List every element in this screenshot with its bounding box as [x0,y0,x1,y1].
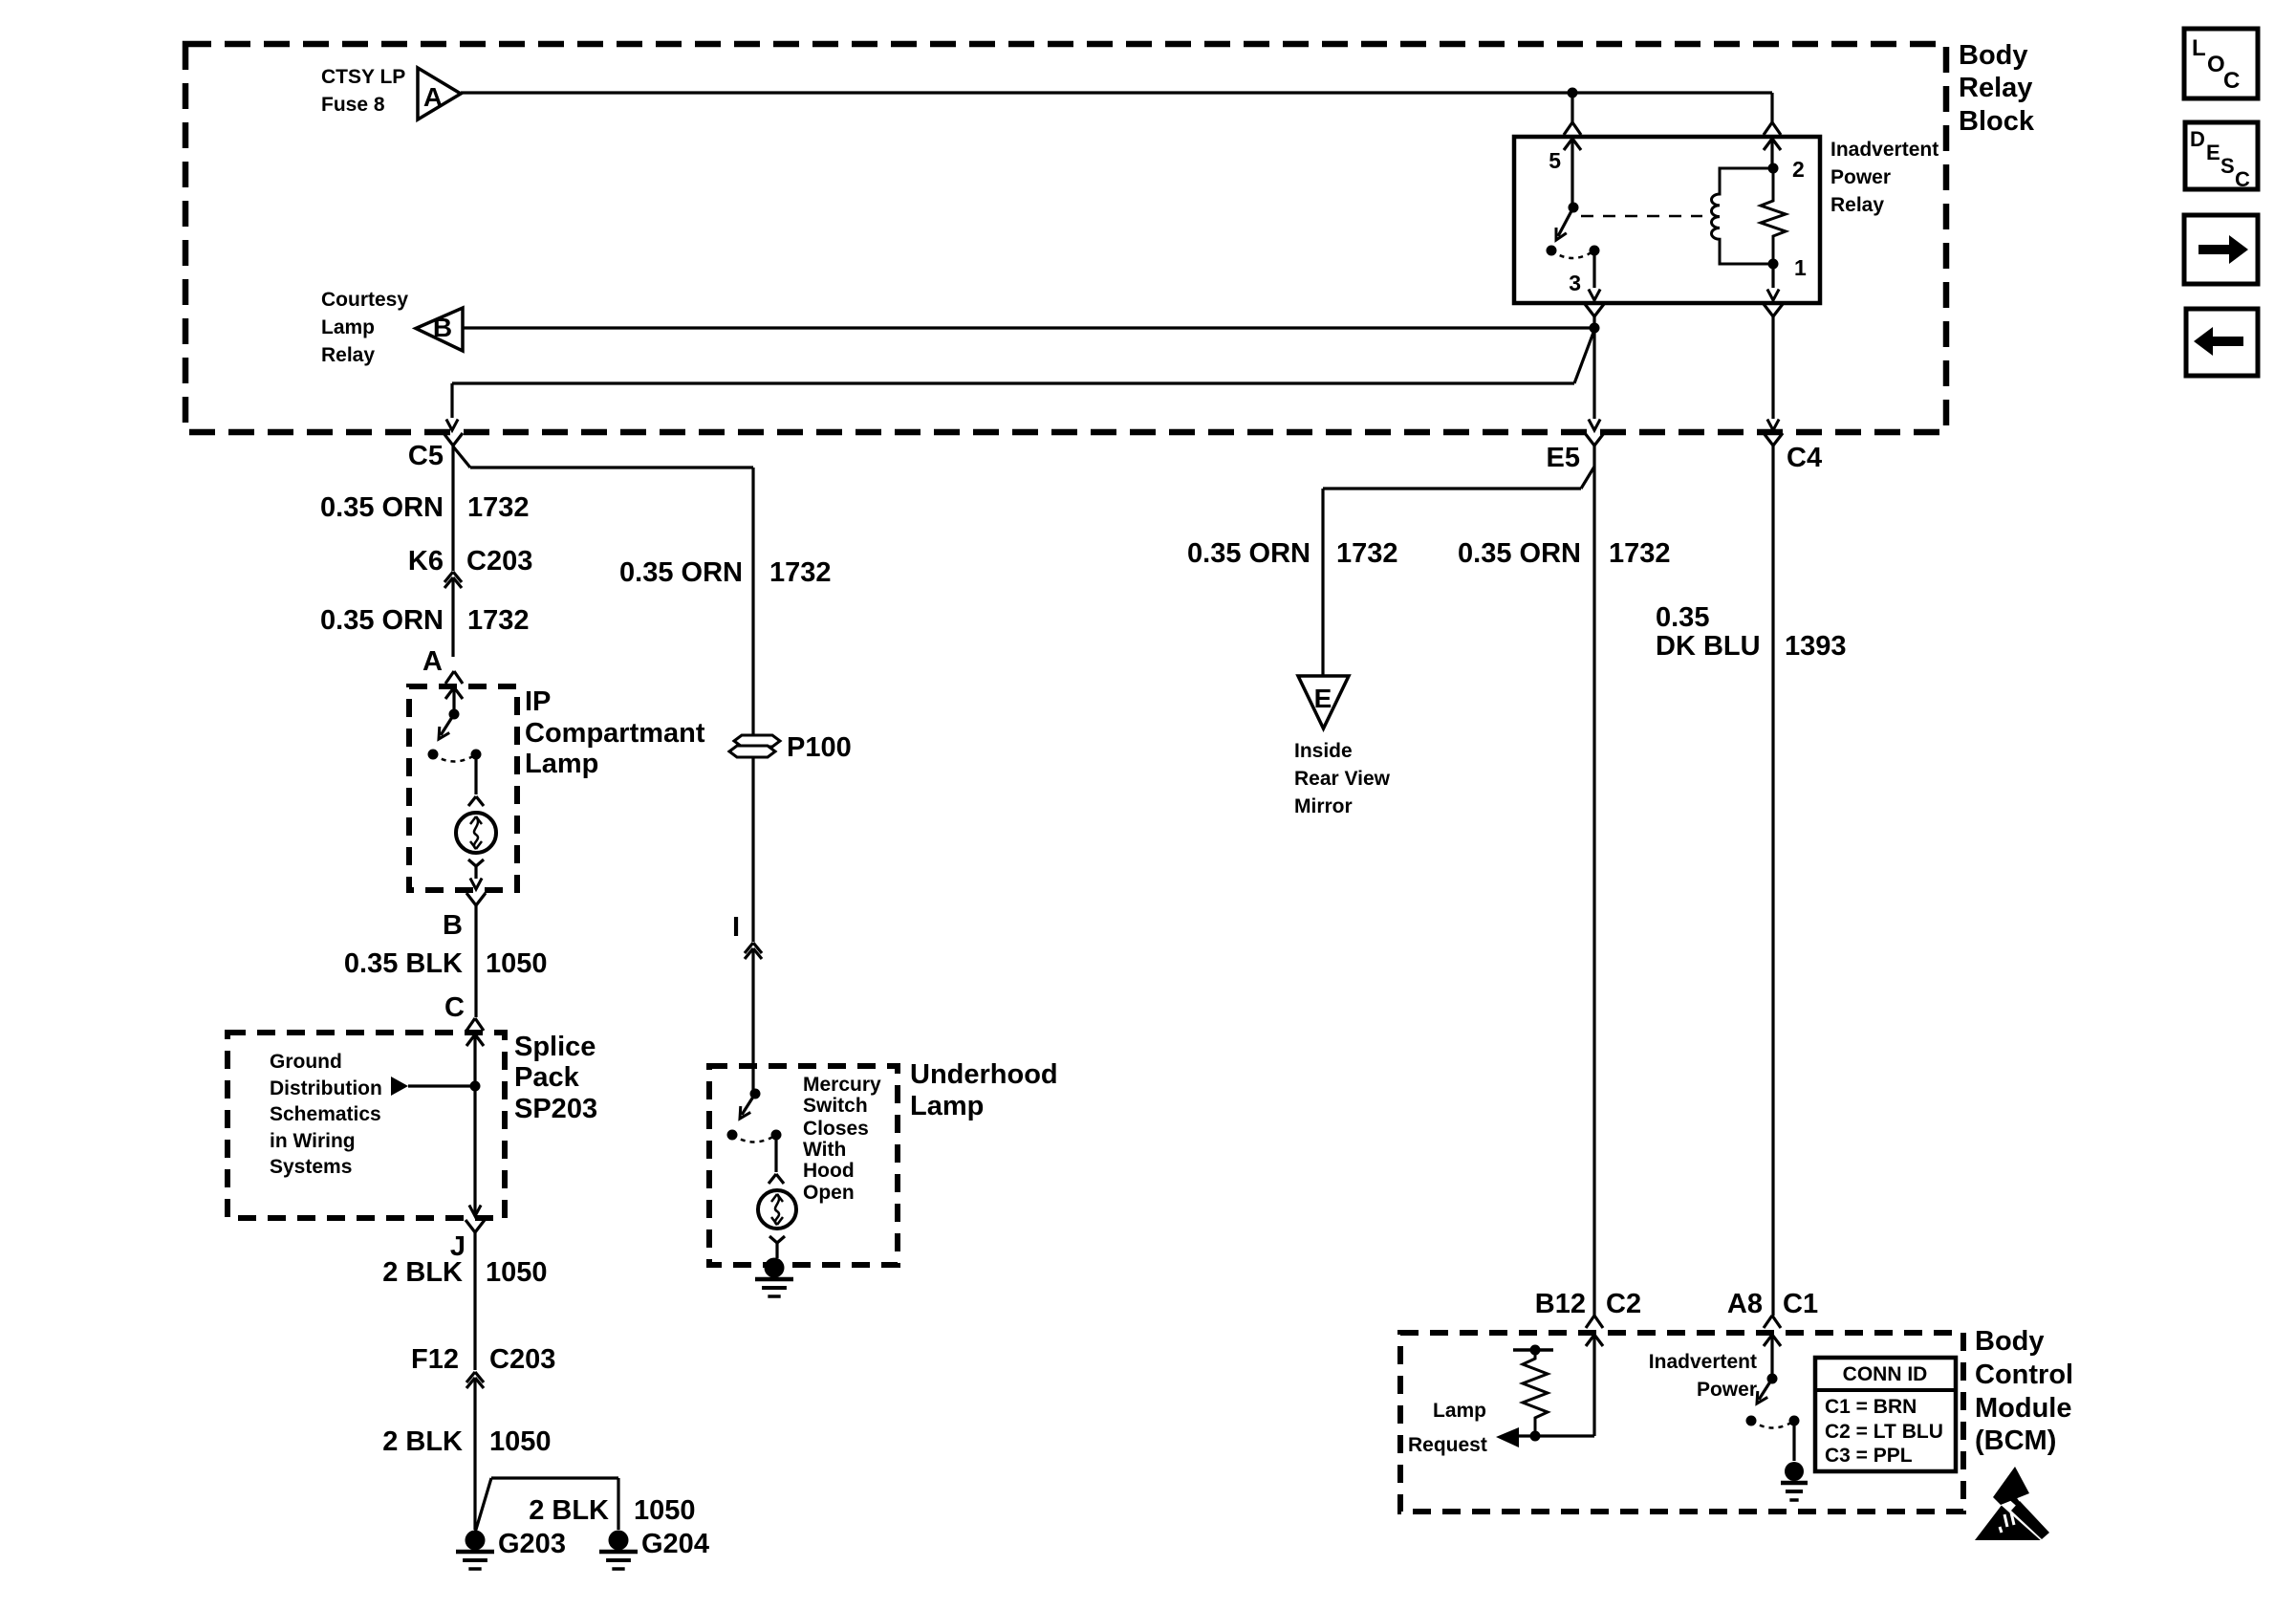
ground at underhood lamp [755,1258,793,1297]
wire: drop to relay pin 5 [1570,93,1573,122]
label: 0.35 ORN 1732 (BCM feed) [1458,538,1670,569]
BCM inadvertent power switch [1746,1374,1800,1426]
svg-text:Relay: Relay [1959,73,2032,103]
svg-text:I: I [732,912,740,943]
svg-text:Inside: Inside [1294,740,1353,762]
wire: C4 exit arrow [1767,420,1779,431]
label: pin 2 [1792,157,1805,182]
grommet P100 [729,735,780,757]
label: 0.35 ORN 1732 (lamp feed) [320,605,529,636]
svg-text:Body: Body [1975,1326,2045,1357]
label: pin 3 [1569,271,1581,295]
label: 0.35 BLK 1050 [344,948,548,979]
relay switch dashed travel arc [1551,250,1594,258]
label: CTSY LP / Fuse 8 [321,66,405,116]
svg-text:Module: Module [1975,1393,2072,1424]
svg-text:0.35 ORN: 0.35 ORN [1458,538,1581,569]
svg-text:Lamp: Lamp [1433,1400,1486,1422]
relay coil [1711,168,1773,264]
connector E5 at block boundary [1585,433,1604,1316]
relay pin 2 dot [1768,163,1779,174]
svg-text:Mercury: Mercury [803,1074,881,1096]
svg-text:Mirror: Mirror [1294,795,1353,817]
label: C3 = PPL [1825,1445,1913,1467]
IP lamp door switch [428,709,482,760]
label: Body Relay Block [1959,40,2035,137]
svg-text:C1 = BRN: C1 = BRN [1825,1396,1917,1418]
svg-text:Lamp: Lamp [321,316,375,338]
svg-text:IP: IP [525,686,551,717]
label: 2 BLK 1050 (ground jumper) [529,1495,695,1526]
body relay block boundary (dashed) [185,44,1946,432]
svg-text:0.35 ORN: 0.35 ORN [619,557,743,588]
wire: relay pin 1 internal exit [1767,264,1779,300]
svg-text:C4: C4 [1787,443,1822,473]
label: C4 [1787,443,1822,473]
svg-text:Inadvertent: Inadvertent [1649,1351,1757,1373]
ESD sensitive device symbol [1975,1467,2054,1546]
IP lamp bulb socket fork (bottom) [468,859,484,879]
wire: pin 3 node vertical [1592,316,1595,419]
svg-text:E: E [1314,684,1332,713]
svg-text:Pack: Pack [514,1062,580,1093]
svg-text:Ground: Ground [270,1051,342,1073]
label: C1 = BRN [1825,1396,1917,1418]
sidebar DESC box [2185,122,2258,191]
svg-text:With: With [803,1139,846,1161]
svg-text:in Wiring: in Wiring [270,1130,356,1152]
svg-text:2 BLK: 2 BLK [382,1426,463,1457]
wire: branch to G204 [475,1478,618,1533]
svg-text:Compartmant: Compartmant [525,718,705,749]
connector marks at relay pin 2 [1764,122,1781,168]
svg-text:E5: E5 [1547,443,1580,473]
wire: P100 to connector I [751,757,754,942]
svg-text:B: B [433,313,452,342]
label: G203 [498,1529,566,1559]
svg-text:Request: Request [1408,1434,1487,1456]
svg-text:C: C [2223,68,2240,94]
underhood bulb socket fork (top) [769,1174,784,1184]
svg-text:L: L [2192,35,2206,61]
CONN ID table [1815,1358,1956,1471]
wire: lamp request line [1519,1434,1594,1437]
label: Inside Rear View Mirror [1294,740,1391,817]
svg-text:1732: 1732 [769,557,832,588]
connector B12/C2 at BCM [1586,1316,1603,1436]
label: B12 C2 [1535,1289,1641,1319]
wire: drop to relay pin 2 [1770,93,1773,122]
svg-text:Hood: Hood [803,1160,855,1182]
svg-text:K6: K6 [408,546,444,577]
svg-text:A8: A8 [1727,1289,1763,1319]
svg-text:DK BLU: DK BLU [1656,631,1761,662]
connector J at splice pack exit [466,1206,485,1371]
svg-text:Relay: Relay [321,344,375,366]
connector K6/C203 in-line [444,572,462,657]
connector A8/C1 at BCM [1764,1316,1781,1379]
wire: E5 exit arrow [1589,420,1600,431]
svg-text:A: A [422,646,443,677]
label: B [443,910,463,941]
svg-text:CTSY LP: CTSY LP [321,66,405,88]
svg-text:0.35 ORN: 0.35 ORN [1187,538,1310,569]
svg-text:1732: 1732 [1609,538,1671,569]
underhood lamp box (dashed) [709,1066,898,1265]
svg-text:1732: 1732 [1336,538,1398,569]
sidebar LOC box [2184,29,2258,98]
svg-text:2 BLK: 2 BLK [529,1495,609,1526]
ground inside BCM [1781,1462,1808,1500]
svg-text:Splice: Splice [514,1032,596,1062]
label: Courtesy Lamp Relay [321,289,408,366]
svg-text:Rear View: Rear View [1294,768,1391,790]
label: pin 1 [1794,255,1807,280]
wire: switch to bulb [474,754,477,794]
svg-text:A: A [423,82,443,112]
connector F12/C203 in-line [466,1372,484,1530]
svg-text:CONN ID: CONN ID [1843,1363,1928,1385]
svg-text:Courtesy: Courtesy [321,289,408,311]
svg-text:1: 1 [1794,255,1807,280]
svg-text:(BCM): (BCM) [1975,1425,2056,1456]
label: G204 [641,1529,709,1559]
ground G204 [599,1531,638,1570]
wire: relay pin 3 internal [1589,250,1600,300]
splice pack reference arrow [391,1077,475,1096]
IP compartment lamp box (dashed) [409,686,517,890]
svg-text:1050: 1050 [634,1495,696,1526]
wire: switch to ground [1792,1421,1795,1461]
label: CONN ID [1843,1363,1928,1385]
svg-text:Block: Block [1959,106,2035,137]
svg-text:1393: 1393 [1785,631,1847,662]
svg-text:1732: 1732 [467,605,530,636]
label: Lamp Request [1408,1400,1487,1456]
junction dot SP203 [470,1081,481,1092]
BCM switch dashed arc [1751,1421,1794,1428]
svg-text:2 BLK: 2 BLK [382,1257,463,1288]
wire: E5 branch to mirror [1323,467,1594,675]
label: 0.35 ORN 1732 (mirror) [1187,538,1397,569]
junction dot pin-3 node [1590,323,1600,334]
svg-text:Schematics: Schematics [270,1103,381,1125]
svg-text:0.35: 0.35 [1656,602,1709,633]
connector A at IP lamp box [445,671,463,714]
svg-text:Power: Power [1697,1379,1757,1401]
label: C5 [408,441,444,471]
svg-text:B: B [443,910,463,941]
svg-text:2: 2 [1792,157,1805,182]
svg-text:Distribution: Distribution [270,1077,382,1099]
label: A8 C1 [1727,1289,1818,1319]
mercury switch dashed arc [732,1135,776,1142]
label: K6 C203 [408,546,532,577]
BCM lamp-request resistor [1523,1350,1548,1436]
svg-text:Systems: Systems [270,1156,352,1178]
label: J [450,1231,466,1262]
BCM lamp-request resistor top bar [1513,1345,1553,1356]
svg-text:SP203: SP203 [514,1094,597,1124]
label: A [422,646,443,677]
svg-text:Control: Control [1975,1360,2073,1390]
connector I in-line [745,943,762,1094]
svg-text:Switch: Switch [803,1095,868,1117]
label: Inadvertent Power Relay [1830,139,1939,216]
svg-text:C: C [2235,167,2250,191]
svg-text:1050: 1050 [489,1426,552,1457]
connector triangle E (Inside Rear View Mirror) [1298,676,1349,729]
label: Ground Distribution Schematics in Wiring Systems [270,1051,382,1178]
underhood lamp bulb [758,1190,796,1229]
label: 2 BLK 1050 (lower) [382,1426,551,1457]
relay switch fixed contact dot [1590,246,1600,256]
svg-text:1050: 1050 [486,1257,548,1288]
connector marks below relay pin 1 [1764,304,1783,316]
svg-text:0.35 ORN: 0.35 ORN [320,492,444,523]
IP compartment lamp bulb [456,813,496,853]
label: IP Compartmant Lamp [525,686,705,779]
connector C at splice pack entry [466,1018,484,1215]
label: 2 BLK 1050 (upper) [382,1257,547,1288]
svg-text:Fuse 8: Fuse 8 [321,94,385,116]
body control module box (dashed) [1400,1333,1963,1512]
label: 0.35 DK BLU 1393 [1656,602,1847,662]
svg-text:E: E [2206,141,2220,164]
sidebar back arrow box [2186,309,2258,376]
svg-text:1732: 1732 [467,492,530,523]
label: Mercury Switch Closes With Hood Open [803,1074,881,1204]
svg-text:C203: C203 [489,1344,555,1375]
svg-text:1050: 1050 [486,948,548,979]
connector marks at relay pin 5 [1564,122,1581,207]
svg-text:Relay: Relay [1830,194,1884,216]
svg-text:F12: F12 [411,1344,459,1375]
svg-text:0.35 BLK: 0.35 BLK [344,948,463,979]
junction dot on fuse bus [1568,88,1578,98]
label: Body Control Module (BCM) [1975,1326,2073,1456]
relay actuation dashed link [1581,215,1702,218]
svg-text:Closes: Closes [803,1118,869,1140]
ground G203 [456,1531,494,1570]
wire: fuse feed bus [461,91,1772,94]
svg-text:0.35 ORN: 0.35 ORN [320,605,444,636]
wire: C5 to P100 branch [453,446,753,734]
svg-text:D: D [2190,127,2205,151]
relay pin 1 dot [1768,259,1779,270]
connector triangle A (CTSY LP Fuse 8 feed) [418,68,461,120]
wire: courtesy lamp relay line [463,326,1594,329]
svg-text:C203: C203 [466,546,532,577]
svg-text:Power: Power [1830,166,1891,188]
splice pack box (dashed) [227,1033,505,1218]
label: 0.35 ORN 1732 (underhood feed) [619,557,831,588]
svg-text:C1: C1 [1783,1289,1818,1319]
label: Underhood Lamp [910,1059,1058,1121]
svg-text:C5: C5 [408,441,444,471]
svg-text:C3 = PPL: C3 = PPL [1825,1445,1913,1467]
svg-text:3: 3 [1569,271,1581,295]
underhood mercury switch [727,1089,782,1141]
sidebar forward arrow box [2184,215,2258,284]
svg-text:B12: B12 [1535,1289,1586,1319]
svg-text:Underhood: Underhood [910,1059,1058,1090]
svg-text:S: S [2220,154,2235,178]
connector C5 at block boundary [444,433,463,571]
svg-text:Lamp: Lamp [910,1091,984,1121]
connector triangle B (Courtesy Lamp Relay) [416,308,463,351]
svg-text:C: C [444,992,465,1023]
label: P100 [787,732,852,763]
label: 0.35 ORN 1732 (C5 wire) [320,492,529,523]
svg-text:5: 5 [1549,148,1561,173]
svg-text:G204: G204 [641,1529,709,1559]
relay resistor [1761,168,1786,264]
label: Inadvertent Power (BCM) [1649,1351,1757,1401]
connector marks below relay pin 3 [1585,304,1604,316]
svg-text:Body: Body [1959,40,2028,71]
underhood bulb socket fork (bottom) [769,1236,785,1258]
IP lamp bulb socket fork (top) [468,796,484,806]
wire: C5 branch with elbow [446,330,1594,430]
label: F12 C203 [411,1344,555,1375]
inadvertent power relay box [1514,137,1820,303]
label: Splice Pack SP203 [514,1032,597,1124]
wire: pin 1 to C4 [1771,316,1774,419]
relay switch movable contact [1547,203,1579,256]
svg-text:Inadvertent: Inadvertent [1830,139,1939,161]
svg-text:O: O [2207,52,2225,77]
connector C4 at block boundary [1764,433,1783,1316]
svg-text:G203: G203 [498,1529,566,1559]
lamp request arrow (filled) [1496,1427,1519,1447]
connector B at IP box exit [466,879,486,1018]
svg-text:P100: P100 [787,732,852,763]
IP lamp switch dashed arc [433,754,476,762]
label: E5 [1547,443,1580,473]
junction dot at resistor bottom [1530,1431,1541,1442]
label: I [732,912,740,943]
svg-text:C2: C2 [1606,1289,1641,1319]
svg-text:Open: Open [803,1182,855,1204]
wire: mercury switch to bulb [774,1135,777,1172]
svg-text:Lamp: Lamp [525,749,598,779]
label: C [444,992,465,1023]
label: pin 5 [1549,148,1561,173]
label: C2 = LT BLU [1825,1421,1943,1443]
svg-text:C2 = LT BLU: C2 = LT BLU [1825,1421,1943,1443]
